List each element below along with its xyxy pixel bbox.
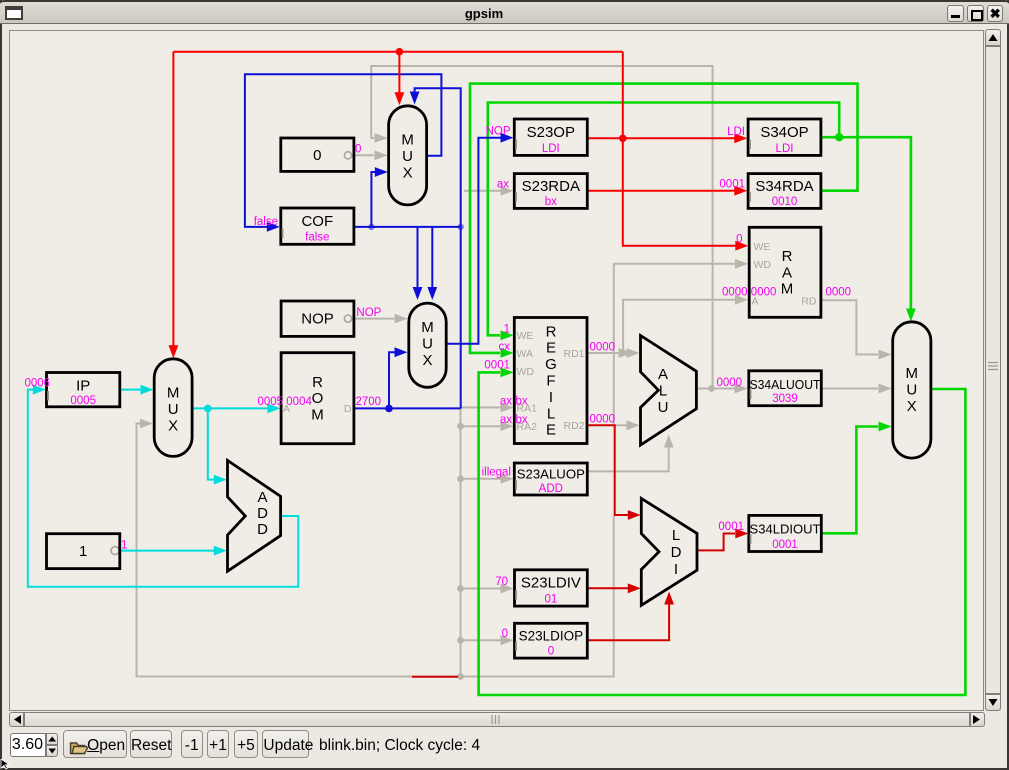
wire field trunk to S23LDIV (461, 588, 502, 590)
svg-text:ax: ax (500, 396, 512, 408)
wire ROM D output (354, 407, 461, 409)
svg-text:0: 0 (548, 646, 554, 658)
svg-text:ax: ax (497, 179, 509, 191)
horizontal scrollbar (9, 712, 985, 727)
svg-text:RD2: RD2 (563, 420, 584, 432)
svg-text:D: D (671, 544, 682, 561)
svg-text:0006: 0006 (25, 378, 51, 390)
wire RD2 branch to RAM WD (614, 264, 736, 424)
vertical scrollbar (985, 29, 1002, 711)
svg-text:0: 0 (355, 144, 361, 156)
svg-text:0001: 0001 (772, 539, 798, 551)
svg-text:ADD: ADD (539, 483, 563, 495)
svg-text:1: 1 (121, 540, 127, 552)
mux MUX3 (IP select) (154, 359, 192, 457)
svg-text:IP: IP (76, 378, 90, 395)
svg-text:0: 0 (502, 628, 508, 640)
wire S23LDIOP to LDI op input (587, 603, 669, 640)
port circle NOP box (344, 315, 351, 322)
svg-text:L: L (547, 405, 555, 422)
svg-text:M: M (781, 281, 794, 298)
svg-text:S23ALUOP: S23ALUOP (517, 467, 585, 482)
junction trunk/S23ALUOP (457, 475, 464, 482)
svg-text:WA: WA (517, 348, 534, 360)
wire gray field trunk (460, 408, 462, 677)
ldi unit LDI (641, 498, 697, 605)
svg-text:I: I (674, 561, 678, 578)
register S34LDIOUT (749, 515, 822, 551)
svg-text:S23OP: S23OP (527, 124, 575, 141)
register const 1 (47, 534, 120, 569)
svg-text:X: X (168, 418, 178, 435)
junction COF line / MUX1 branch (368, 224, 374, 230)
svg-text:cx: cx (499, 341, 511, 353)
svg-text:bx: bx (516, 396, 528, 408)
svg-text:A: A (658, 366, 668, 383)
svg-text:WE: WE (517, 330, 534, 342)
svg-text:3039: 3039 (772, 393, 798, 405)
register S23LDIV (515, 570, 588, 606)
svg-text:A: A (782, 264, 792, 281)
wire RD2 to ALU input B (615, 424, 628, 426)
wire red trunk down to MUX1 top (398, 52, 400, 93)
svg-text:0000: 0000 (826, 286, 852, 298)
mux MUX2 (opcode select) (409, 303, 446, 387)
svg-text:0000: 0000 (717, 377, 743, 389)
svg-text:0000: 0000 (590, 342, 616, 354)
wire field trunk to REGFILE RA2 (461, 425, 502, 427)
register S34ALUOUT (749, 371, 822, 406)
wire const 1 to ADD (120, 550, 214, 552)
svg-text:M: M (311, 407, 324, 424)
wire field trunk to S23ALUOP (461, 478, 502, 480)
register NOP (281, 301, 354, 336)
ROM (281, 353, 354, 444)
junction RD1/RAM-A (620, 350, 627, 357)
svg-text:U: U (658, 399, 669, 416)
svg-text:COF: COF (301, 213, 333, 230)
svg-text:M: M (421, 319, 434, 336)
wire bottom gray bus to MUX3 left (137, 424, 614, 677)
svg-text:S23LDIOP: S23LDIOP (519, 629, 584, 644)
wire gray frame: ALU result to MUX1 upper-left input (371, 66, 712, 388)
adder ADD (228, 460, 281, 571)
wire IP to MUX3 (120, 389, 141, 391)
register S23RDA (514, 174, 587, 209)
svg-text:0010: 0010 (772, 196, 798, 208)
svg-text:E: E (546, 422, 556, 439)
wire COF line drop 1 to MUX2 top (417, 227, 419, 288)
REGFILE (514, 318, 587, 444)
svg-text:S23RDA: S23RDA (522, 178, 580, 195)
svg-text:I: I (549, 389, 553, 406)
wire to S23RDA input (464, 190, 501, 192)
svg-text:0005: 0005 (70, 395, 96, 407)
register IP (47, 373, 120, 407)
wire field trunk to REGFILE RA1 (461, 407, 502, 409)
junction ALU output / gray frame (708, 385, 715, 392)
svg-text:D: D (257, 521, 268, 538)
wire COF line to MUX1 lower-left input (371, 172, 376, 227)
svg-text:R: R (782, 248, 793, 265)
junction trunk/bottom bus (457, 673, 464, 680)
wire red trunk down to MUX3 top (172, 52, 174, 347)
junction trunk/S23LDIOP (457, 637, 464, 644)
svg-text:0000 0000: 0000 0000 (722, 286, 776, 298)
mux MUX1 (branch select) (389, 106, 427, 205)
svg-text:70: 70 (495, 576, 508, 588)
wire MUX3 output to ROM A (191, 407, 269, 409)
svg-text:S34LDIOUT: S34LDIOUT (750, 522, 821, 537)
svg-text:M: M (401, 132, 414, 149)
svg-text:bx: bx (516, 414, 528, 426)
svg-text:F: F (546, 373, 555, 390)
svg-text:2700: 2700 (356, 396, 382, 408)
junction COF/trunk (458, 224, 464, 230)
wire ROM D trunk up to MUX1 top (415, 88, 461, 408)
svg-text:S34RDA: S34RDA (755, 178, 813, 195)
svg-text:LDI: LDI (542, 143, 560, 155)
svg-text:WD: WD (754, 259, 772, 271)
junction ROM D (385, 405, 393, 413)
wire red segment on bottom bus (412, 676, 458, 678)
mux MUX4 (writeback select) (893, 322, 931, 458)
svg-text:M: M (906, 365, 919, 382)
wire red trunk vertical (623, 52, 736, 246)
svg-text:false: false (305, 232, 329, 244)
wire RAM RD to MUX4 (821, 300, 878, 354)
svg-text:M: M (167, 385, 180, 402)
wire S23ALUOP to ALU op input (587, 446, 668, 471)
svg-text:LDI: LDI (776, 143, 794, 155)
port ticks (515, 140, 517, 150)
wire S34LDIOUT output to MUX4 lower input (821, 427, 878, 534)
wire S34OP output branch to MUX4 top (839, 137, 911, 310)
junction trunk/S23LDIV (457, 585, 464, 592)
port circle const 0 (344, 152, 351, 159)
wire ROM D branch to MUX2 left (389, 352, 396, 408)
svg-text:0: 0 (736, 234, 742, 246)
svg-text:D: D (257, 505, 268, 522)
wire red trunk horizontal top (173, 51, 622, 53)
wire ALU output to S34ALUOUT (696, 388, 736, 390)
svg-text:X: X (422, 352, 432, 369)
svg-text:O: O (312, 390, 324, 407)
wire field trunk to S23LDIOP (461, 639, 502, 641)
junction red trunk / MUX1 branch (396, 48, 404, 56)
alu ALU (641, 336, 697, 446)
svg-text:NOP: NOP (356, 307, 381, 319)
svg-text:R: R (312, 374, 323, 391)
wire MUX4 output loop to REGFILE WD (479, 372, 966, 695)
wire S34ALUOUT to MUX4 (821, 388, 878, 390)
register S23ALUOP (514, 463, 587, 495)
wire RD1 branch to RAM A (623, 300, 736, 353)
register COF (281, 208, 354, 244)
svg-text:WD: WD (517, 366, 535, 378)
junction S34OP output (835, 133, 843, 141)
svg-text:WE: WE (754, 241, 771, 253)
svg-text:illegal: illegal (482, 467, 511, 479)
wire MUX3 output branch to ADD (208, 408, 214, 479)
register S23LDIOP (515, 623, 588, 658)
svg-text:L: L (672, 527, 680, 544)
svg-text:ax: ax (500, 414, 512, 426)
wire ADD output loop back to IP (28, 390, 299, 587)
svg-text:G: G (545, 356, 557, 373)
svg-text:X: X (907, 398, 917, 415)
svg-text:U: U (402, 148, 413, 165)
wire S23LDIV to LDI (587, 587, 628, 589)
wire S34OP output to REGFILE WA (488, 103, 839, 336)
wire COF line drop 2 to MUX2 top (431, 227, 433, 288)
junction MUX3 output (204, 405, 212, 413)
register S34RDA (748, 174, 821, 209)
wire REGFILE RD2 to LDI value input (587, 425, 628, 515)
wire COF output to trunk (354, 226, 461, 228)
svg-text:0005 0004: 0005 0004 (258, 396, 313, 408)
svg-text:D: D (344, 403, 352, 415)
wire S23OP output to S34OP (587, 137, 735, 139)
junction trunk/RA2 (457, 423, 464, 430)
RAM (749, 227, 821, 317)
wire MUX2 output to S23OP (445, 138, 502, 344)
svg-text:U: U (906, 382, 917, 399)
svg-text:A: A (257, 489, 267, 506)
svg-text:0001: 0001 (719, 179, 745, 191)
wire S34RDA output to REGFILE WE (470, 84, 858, 353)
extra chevron RD1 (619, 348, 632, 358)
svg-text:S34ALUOUT: S34ALUOUT (750, 377, 821, 392)
svg-text:0: 0 (313, 147, 321, 164)
wire MUX1 feedback to COF (245, 74, 442, 227)
svg-text:S34OP: S34OP (760, 124, 808, 141)
wire S23RDA output to S34RDA (587, 190, 735, 192)
wire LDI output to S34LDIOUT (697, 534, 735, 551)
svg-text:L: L (659, 383, 667, 400)
register const 0 (281, 138, 354, 171)
svg-text:E: E (546, 340, 556, 357)
svg-text:LDI: LDI (727, 126, 745, 138)
svg-text:X: X (403, 165, 413, 182)
register S23OP (514, 119, 587, 155)
svg-text:false: false (254, 216, 278, 228)
svg-text:NOP: NOP (301, 311, 334, 328)
junction S23OP output / red trunk (619, 135, 627, 143)
svg-text:R: R (546, 323, 557, 340)
svg-text:1: 1 (504, 323, 510, 335)
wire REGFILE RD1 to ALU input A (587, 352, 628, 354)
wire NOP box to MUX2 left (351, 318, 394, 320)
wire const 0 to MUX1 (351, 154, 374, 156)
svg-text:0001: 0001 (484, 359, 510, 371)
svg-text:0001: 0001 (718, 521, 744, 533)
svg-text:S23LDIV: S23LDIV (521, 575, 581, 592)
svg-text:U: U (422, 336, 433, 353)
svg-text:1: 1 (79, 543, 87, 560)
svg-text:RD: RD (801, 295, 817, 307)
svg-text:0000: 0000 (590, 413, 616, 425)
register S34OP (748, 119, 821, 155)
port circle const 1 (111, 547, 119, 555)
svg-text:01: 01 (545, 593, 558, 605)
svg-text:bx: bx (545, 196, 557, 208)
svg-text:NOP: NOP (486, 126, 511, 138)
svg-text:RD1: RD1 (563, 348, 584, 360)
svg-text:U: U (168, 401, 179, 418)
